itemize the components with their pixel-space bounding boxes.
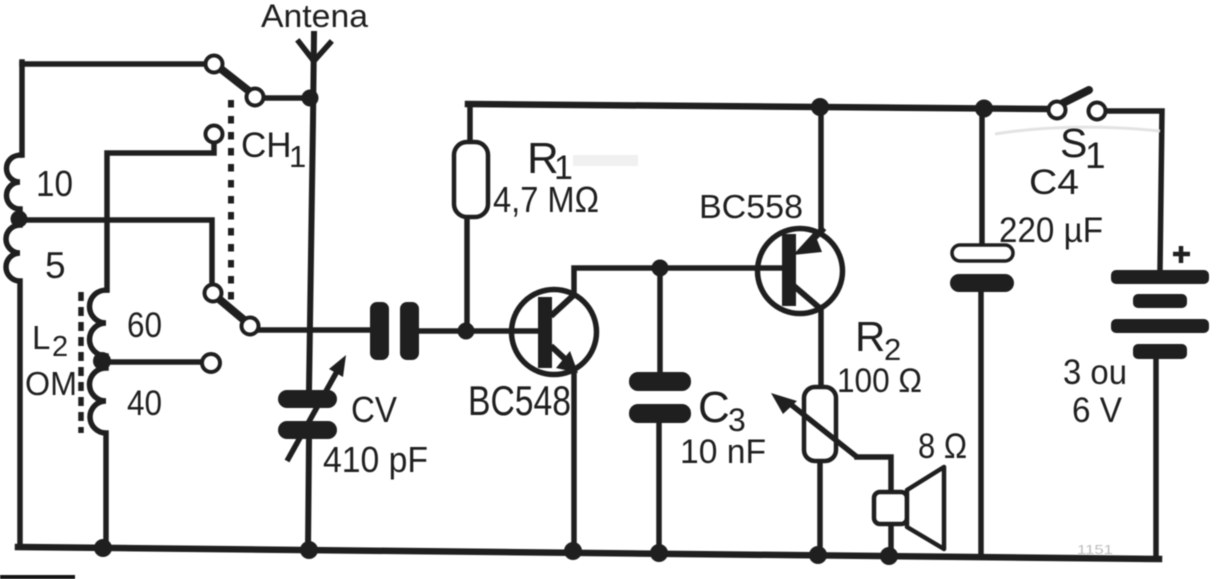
svg-text:1: 1: [289, 139, 306, 174]
svg-text:OM: OM: [25, 365, 77, 402]
svg-text:L: L: [32, 319, 50, 356]
svg-text:8 Ω: 8 Ω: [918, 427, 967, 466]
svg-text:BC558: BC558: [699, 188, 803, 225]
svg-text:C4: C4: [1029, 163, 1079, 202]
svg-text:410 pF: 410 pF: [323, 439, 428, 480]
svg-text:220 µF: 220 µF: [999, 211, 1103, 250]
svg-text:C: C: [698, 383, 730, 432]
svg-text:BC548: BC548: [468, 377, 571, 424]
svg-text:S: S: [1060, 120, 1087, 166]
svg-text:CV: CV: [351, 389, 397, 430]
svg-text:1: 1: [1085, 135, 1106, 176]
svg-text:10: 10: [36, 163, 73, 204]
svg-text:1151: 1151: [1077, 542, 1113, 557]
svg-text:4,7 MΩ: 4,7 MΩ: [493, 179, 599, 220]
svg-text:100 Ω: 100 Ω: [837, 362, 922, 400]
svg-text:CH: CH: [241, 126, 292, 165]
svg-text:3 ou: 3 ou: [1063, 353, 1127, 392]
svg-text:40: 40: [127, 384, 162, 423]
svg-text:5: 5: [45, 245, 66, 286]
svg-text:6 V: 6 V: [1072, 391, 1123, 430]
svg-text:R: R: [855, 313, 885, 360]
svg-text:Antena: Antena: [261, 0, 368, 34]
svg-text:60: 60: [127, 306, 162, 345]
svg-text:10 nF: 10 nF: [680, 433, 766, 471]
svg-text:2: 2: [52, 331, 68, 363]
